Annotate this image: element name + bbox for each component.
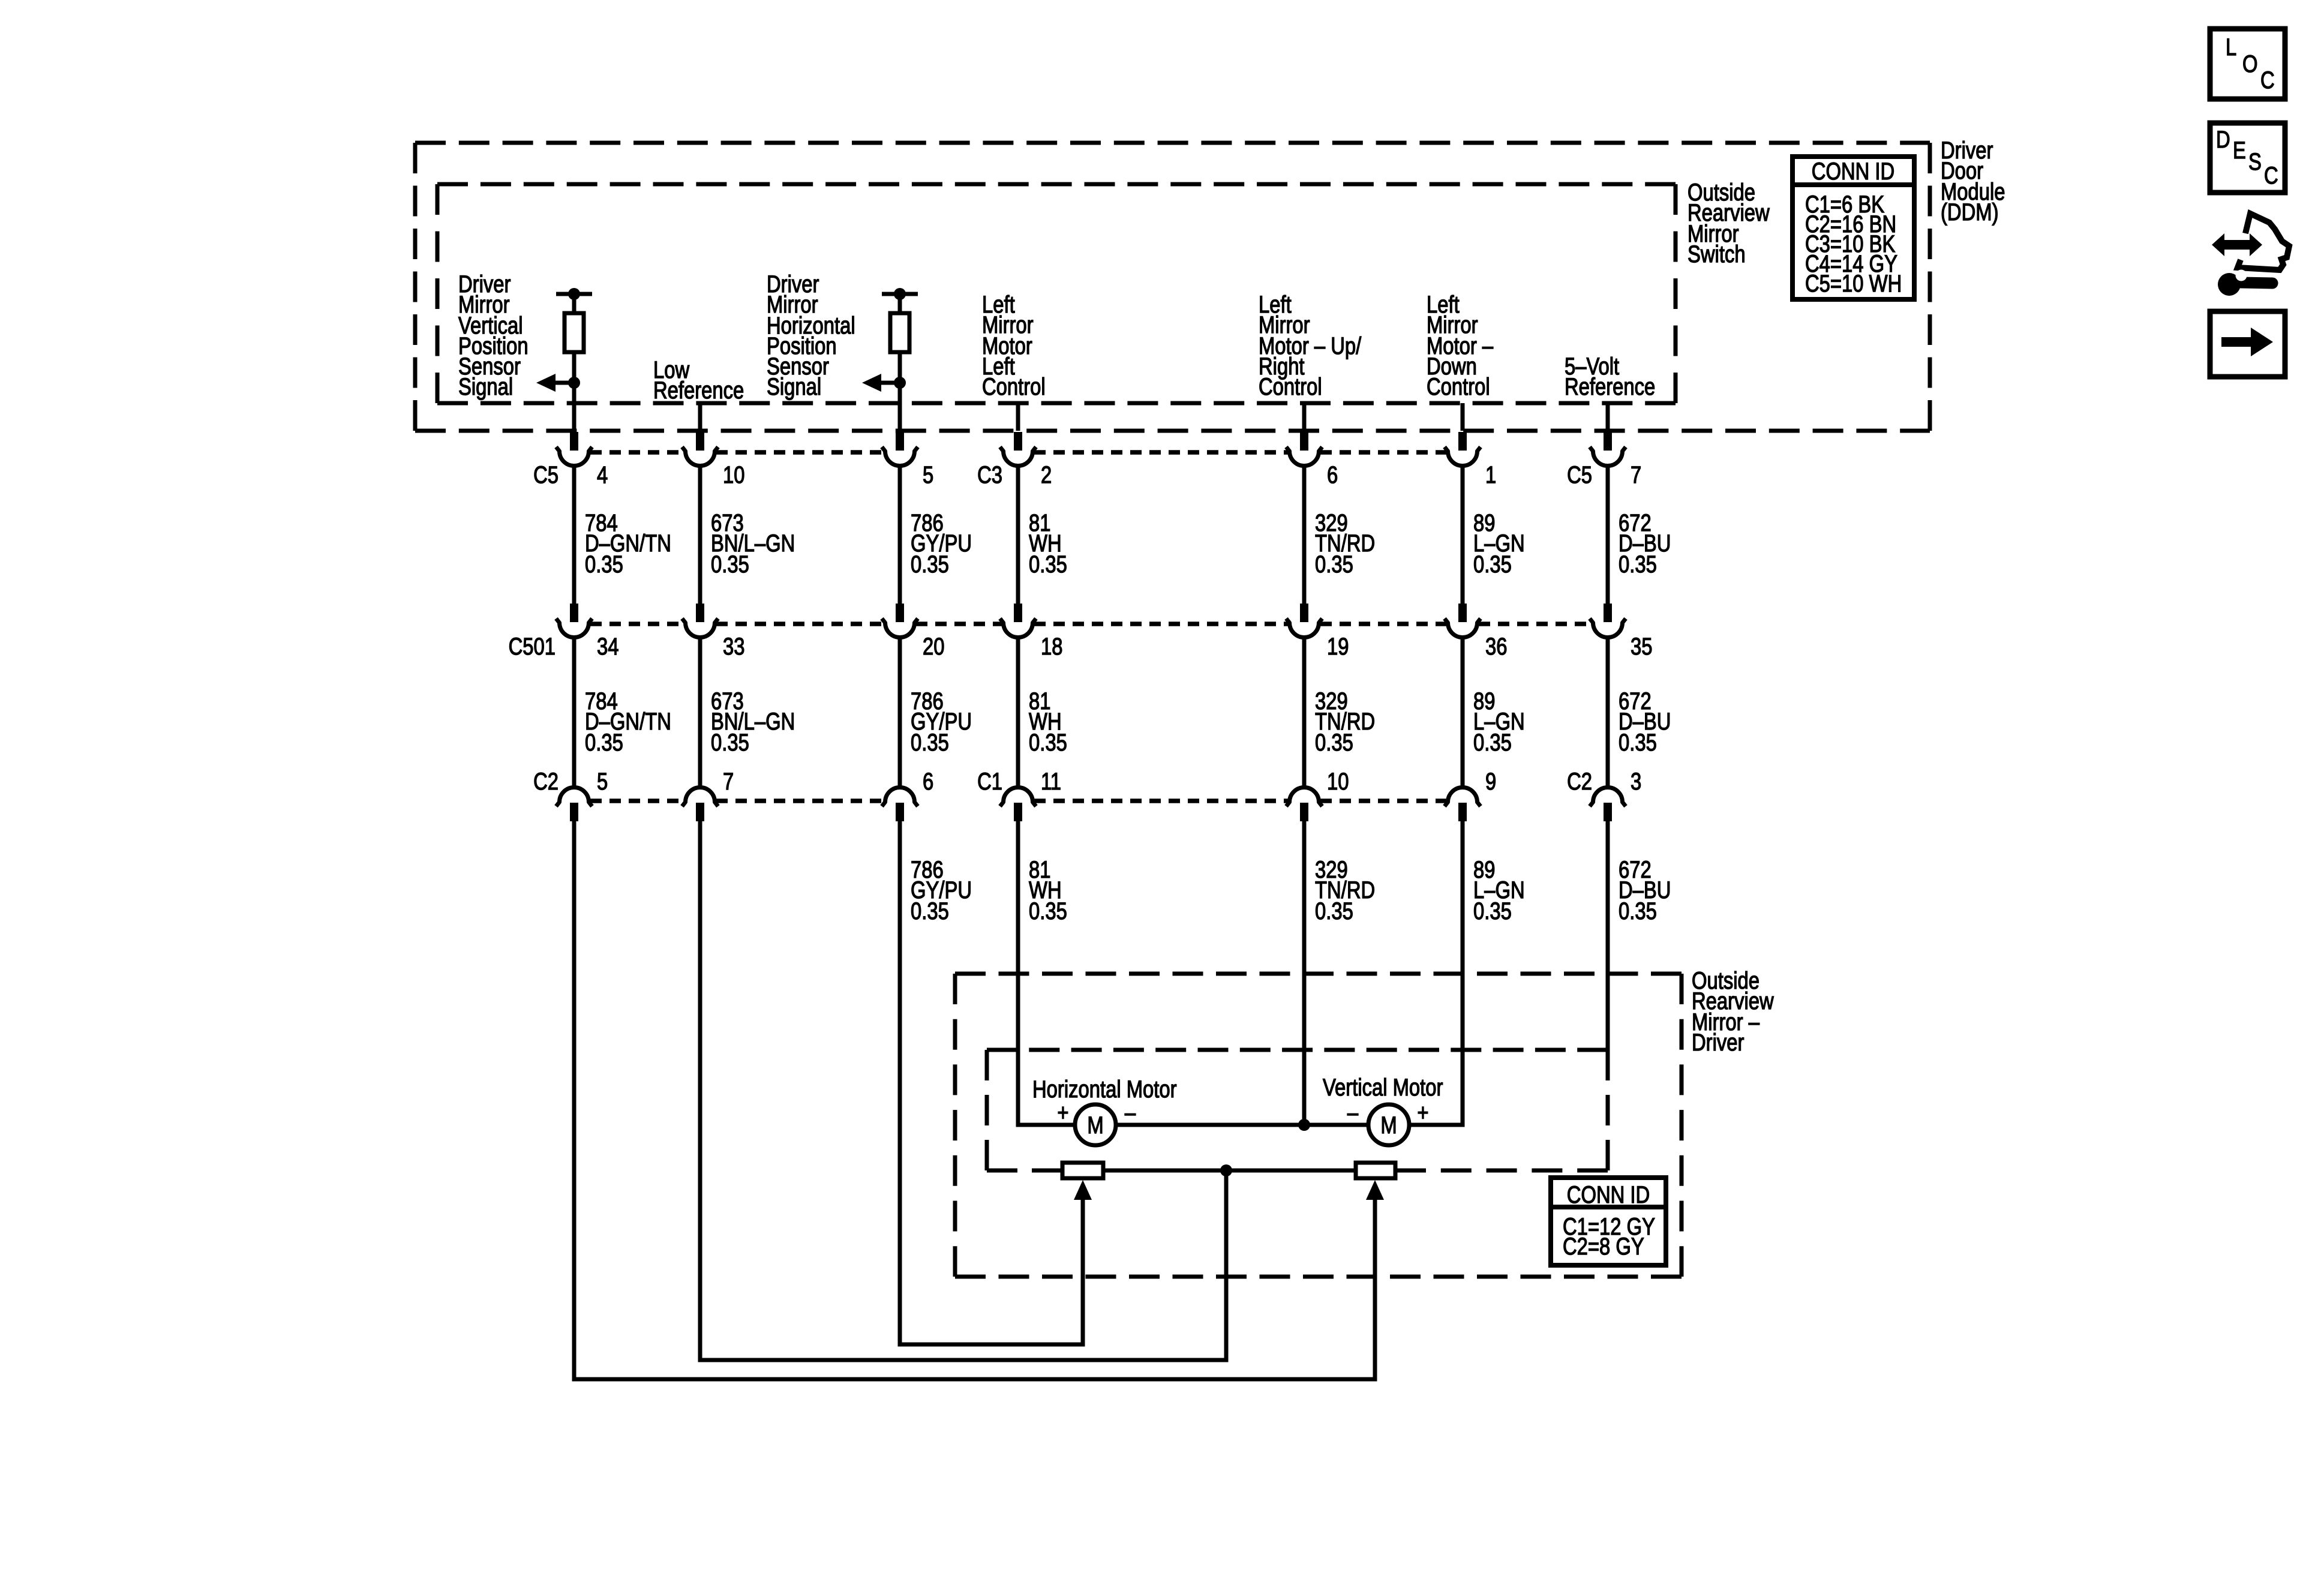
row3 pin stub col4 [1014, 803, 1022, 821]
Driver Door Module (DDM) outer dashed box [415, 143, 1930, 431]
wire label 81 WH [1029, 688, 1067, 756]
junction dot [894, 288, 906, 300]
horizontal motor M1 [1075, 1104, 1116, 1145]
row1 dotted connector line c1-c2 [590, 450, 684, 455]
driver mirror vertical position sensor: top bar [556, 292, 592, 296]
wire: Left Mirror Motor Up/Right Control pin [1302, 403, 1307, 431]
wire col5 down to motor junction [1302, 821, 1307, 1125]
svg-text:0.35: 0.35 [911, 729, 949, 756]
svg-text:CONN ID: CONN ID [1567, 1181, 1650, 1208]
svg-text:0.35: 0.35 [1029, 897, 1067, 924]
row1 pin stub col7 [1604, 432, 1612, 451]
wire col6 row2-row3 [1461, 638, 1465, 788]
svg-text:D: D [2216, 126, 2230, 153]
wiper arrow (horizontal position sensor signal) [862, 374, 900, 392]
svg-text:S: S [2248, 148, 2262, 175]
wire col2 row2-row3 [698, 638, 702, 788]
row3 connector cup col2 [682, 788, 718, 807]
wire col2 to low-reference junction [700, 821, 1226, 1360]
wiper arrow into vertical sensor [1366, 1180, 1384, 1200]
row3 connector cup col3 [882, 788, 918, 807]
row2 connector cup col6 [1445, 619, 1481, 638]
row2 pin stub col4 [1014, 604, 1022, 622]
wire: 5-Volt Reference pin [1606, 403, 1610, 431]
wire col3 row2-row3 [898, 638, 902, 788]
svg-text:Reference: Reference [1565, 373, 1655, 400]
svg-text:10: 10 [1327, 768, 1349, 795]
junction dot [568, 288, 580, 300]
svg-text:+: + [1057, 1099, 1068, 1126]
row2 dotted connector line [916, 622, 1002, 626]
svg-text:C2: C2 [533, 768, 559, 795]
svg-text:5: 5 [923, 461, 933, 488]
wire label 786 GY/PU [911, 509, 972, 578]
wire: Left Mirror Motor Down Control pin [1461, 403, 1465, 431]
row2 connector cup col2 [682, 619, 718, 638]
row3 connector cup col4 [1000, 788, 1036, 807]
svg-text:0.35: 0.35 [585, 729, 623, 756]
horizontal position sensor element [1062, 1163, 1103, 1178]
svg-text:6: 6 [923, 768, 933, 795]
svg-text:Control: Control [1259, 373, 1322, 400]
hyperlink arrow icon box [2210, 311, 2285, 377]
svg-text:35: 35 [1631, 633, 1652, 660]
wire col3 to horizontal sensor wiper [900, 821, 1083, 1344]
row3 dotted connector line c4-c5 [1034, 798, 1288, 803]
row2 pin stub col1 [570, 604, 578, 622]
row2 pin stub col5 [1300, 604, 1308, 622]
svg-text:Vertical Motor: Vertical Motor [1323, 1074, 1443, 1101]
row3 pin stub col7 [1604, 803, 1612, 821]
LOC icon box [2210, 29, 2285, 99]
wire label 89 L–GN [1473, 509, 1525, 578]
row1 connector cup col6 [1445, 447, 1481, 466]
svg-text:C5: C5 [533, 461, 559, 488]
label: Driver Mirror Horizontal Position Sensor Signal [767, 271, 855, 400]
svg-text:0.35: 0.35 [1315, 729, 1353, 756]
Outside Rearview Mirror Switch inner dashed box [437, 184, 1676, 403]
row2 pin stub col2 [696, 604, 704, 622]
row3 connector cup col5 [1286, 788, 1322, 807]
svg-text:19: 19 [1327, 633, 1349, 660]
label: Left Mirror Motor - Down Control [1427, 291, 1494, 400]
wire label 672 D–BU [1619, 509, 1671, 578]
wire col6 down to Vertical Motor + [1409, 821, 1463, 1125]
row1 pin stub col2 [696, 432, 704, 451]
row2 connector cup col1 [556, 619, 592, 638]
svg-text:6: 6 [1327, 461, 1338, 488]
wire label 673 BN/L–GN [711, 688, 795, 756]
svg-text:C5=10 WH: C5=10 WH [1805, 270, 1902, 297]
DESC icon box [2210, 123, 2285, 193]
row2 connector cup col5 [1286, 619, 1322, 638]
svg-text:0.35: 0.35 [911, 551, 949, 578]
svg-text:L: L [2226, 34, 2236, 61]
wire label 786 GY/PU [911, 688, 972, 756]
row1 pin stub col1 [570, 432, 578, 451]
svg-text:10: 10 [723, 461, 744, 488]
svg-text:+: + [1417, 1099, 1428, 1126]
svg-text:36: 36 [1485, 633, 1507, 660]
label: Driver Mirror Vertical Position Sensor Signal [458, 271, 529, 400]
wire label 672 D–BU [1619, 856, 1671, 924]
row2 pin stub col3 [896, 604, 904, 622]
row1 pin stub col3 [896, 432, 904, 451]
row2 dotted connector line [1479, 622, 1592, 626]
wire [572, 294, 577, 313]
vertical motor M2 [1368, 1104, 1409, 1145]
svg-text:4: 4 [597, 461, 608, 488]
wire col6 row1-row2 [1461, 466, 1465, 604]
svg-text:Signal: Signal [458, 373, 513, 400]
row2 dotted connector line [1320, 622, 1446, 626]
wire col7 down to mirror assembly (5V ref) [1606, 821, 1610, 1062]
svg-text:9: 9 [1485, 768, 1496, 795]
wire label 672 D–BU [1619, 688, 1671, 756]
svg-text:C501: C501 [509, 633, 556, 660]
svg-text:1: 1 [1485, 461, 1496, 488]
svg-text:Driver: Driver [1692, 1029, 1744, 1056]
wire col5 row2-row3 [1302, 638, 1307, 788]
junction dot motor row [1298, 1119, 1310, 1131]
wire [898, 294, 902, 313]
wire: Low Reference pin [698, 403, 702, 431]
svg-text:C3: C3 [977, 461, 1002, 488]
row3 pin stub col1 [570, 803, 578, 821]
junction dot (wiper tap) [894, 377, 906, 389]
row3 dotted connector line c1-c2 [590, 798, 684, 803]
wire between sensor elements [1103, 1169, 1356, 1173]
row3 pin stub col5 [1300, 803, 1308, 821]
row1 connector cup col4 [1000, 447, 1036, 466]
label: Driver Door Module (DDM) [1941, 137, 2005, 226]
svg-text:Signal: Signal [767, 373, 821, 400]
inner box top edge [987, 1048, 1608, 1052]
svg-text:M: M [1380, 1112, 1397, 1139]
svg-text:0.35: 0.35 [1029, 551, 1067, 578]
row2 connector cup col7 [1590, 619, 1626, 638]
svg-text:M: M [1087, 1112, 1103, 1139]
svg-text:7: 7 [723, 768, 734, 795]
row3 pin stub col6 [1458, 803, 1467, 821]
row2 dotted connector line [1034, 622, 1288, 626]
wire label 81 WH [1029, 509, 1067, 578]
row2 pin stub col7 [1604, 604, 1612, 622]
label: Outside Rearview Mirror Switch [1688, 179, 1770, 268]
wire between motors [1116, 1123, 1368, 1127]
wire col7 row1-row2 [1606, 466, 1610, 604]
svg-text:0.35: 0.35 [711, 551, 749, 578]
svg-text:C: C [2264, 162, 2278, 189]
svg-text:34: 34 [597, 633, 618, 660]
svg-text:0.35: 0.35 [585, 551, 623, 578]
row1 pin stub col6 [1458, 432, 1467, 451]
wire label 784 D–GN/TN [585, 509, 671, 578]
svg-text:C2: C2 [1567, 768, 1592, 795]
resistor (vertical position sensor element) [565, 313, 584, 352]
inner box left edge [985, 1050, 989, 1170]
wire label 673 BN/L–GN [711, 509, 795, 578]
row2 pin stub col6 [1458, 604, 1467, 622]
wire col4 row2-row3 [1016, 638, 1020, 788]
junction dot (low reference) [1220, 1164, 1232, 1176]
label: Low Reference [653, 356, 744, 404]
wire col4 row1-row2 [1016, 466, 1020, 604]
wire label 89 L–GN [1473, 688, 1525, 756]
svg-text:0.35: 0.35 [1619, 551, 1657, 578]
svg-text:0.35: 0.35 [1619, 897, 1657, 924]
wire col1 to vertical sensor wiper [574, 821, 1375, 1379]
wire col3 row1-row2 [898, 466, 902, 604]
svg-text:E: E [2233, 137, 2246, 164]
row3 pin stub col3 [896, 803, 904, 821]
label: Left Mirror Motor Left Control [982, 291, 1046, 400]
wire label 329 TN/RD [1315, 509, 1375, 578]
svg-text:C5: C5 [1567, 461, 1592, 488]
row3 connector cup col6 [1445, 788, 1481, 807]
wire label 329 TN/RD [1315, 688, 1375, 756]
svg-text:3: 3 [1631, 768, 1641, 795]
svg-text:C1: C1 [977, 768, 1002, 795]
svg-text:0.35: 0.35 [1619, 729, 1657, 756]
wire [898, 352, 902, 431]
driver mirror horizontal position sensor: top bar [882, 292, 918, 296]
resistor (horizontal position sensor element) [890, 313, 909, 352]
row1 connector cup col2 [682, 447, 718, 466]
wire col1 row2-row3 [572, 638, 577, 788]
row3 connector cup col1 [556, 788, 592, 807]
wire label 786 GY/PU [911, 856, 972, 924]
inner box bottom edge (left part) [987, 1169, 1062, 1173]
svg-text:0.35: 0.35 [1029, 729, 1067, 756]
svg-text:Control: Control [982, 373, 1046, 400]
label: Left Mirror Motor - Up/Right Control [1259, 291, 1362, 400]
row1 connector cup col5 [1286, 447, 1322, 466]
svg-text:Control: Control [1427, 373, 1490, 400]
Outside Rearview Mirror - Driver dashed box [955, 974, 1682, 1277]
wire: Left Mirror Motor Left Control pin [1016, 403, 1020, 431]
wire col1 row1-row2 [572, 466, 577, 604]
svg-text:18: 18 [1041, 633, 1062, 660]
inner box bottom edge (right part) [1395, 1169, 1608, 1173]
svg-text:0.35: 0.35 [1473, 897, 1512, 924]
CONN ID table (DDM connectors) [1792, 157, 1914, 299]
wire label 784 D–GN/TN [585, 688, 671, 756]
svg-text:11: 11 [1041, 768, 1061, 795]
row1 connector cup col3 [882, 447, 918, 466]
svg-text:0.35: 0.35 [911, 897, 949, 924]
svg-text:0.35: 0.35 [1315, 551, 1353, 578]
wire label 81 WH [1029, 856, 1067, 924]
svg-text:0.35: 0.35 [1473, 551, 1512, 578]
row2 dotted connector line [716, 622, 884, 626]
svg-text:33: 33 [723, 633, 744, 660]
row1 dotted connector line c5-c6 [1320, 450, 1446, 455]
inner box right edge [1606, 1050, 1610, 1170]
wiper arrow into horizontal sensor [1074, 1180, 1092, 1200]
row1 dotted connector line c4-c5 [1034, 450, 1288, 455]
row3 pin stub col2 [696, 803, 704, 821]
wire [572, 352, 577, 431]
junction dot (wiper tap) [568, 377, 580, 389]
svg-text:Reference: Reference [653, 377, 744, 404]
svg-text:2: 2 [1041, 461, 1052, 488]
svg-text:Switch: Switch [1688, 241, 1746, 268]
svg-text:CONN ID: CONN ID [1812, 158, 1894, 185]
wiper arrow (vertical position sensor signal) [536, 374, 574, 392]
diagnostic icon: double arrow, mirror outline, wrench [2212, 214, 2289, 296]
svg-text:C: C [2260, 67, 2275, 94]
svg-text:Horizontal Motor: Horizontal Motor [1032, 1076, 1177, 1103]
row1 connector cup col7 [1590, 447, 1626, 466]
svg-text:(DDM): (DDM) [1941, 199, 1999, 226]
svg-text:7: 7 [1631, 461, 1641, 488]
svg-text:5: 5 [597, 768, 608, 795]
CONN ID table (mirror connectors) [1551, 1178, 1666, 1265]
row2 dotted connector line [590, 622, 684, 626]
row2 connector cup col4 [1000, 619, 1036, 638]
wire col4 down to Horizontal Motor + [1018, 821, 1075, 1125]
svg-text:–: – [1125, 1099, 1136, 1126]
wire label 89 L–GN [1473, 856, 1525, 924]
wire col2 row1-row2 [698, 466, 702, 604]
svg-text:0.35: 0.35 [1315, 897, 1353, 924]
row1 dotted connector line c2-c3 [716, 450, 884, 455]
vertical position sensor element [1356, 1163, 1395, 1178]
row3 connector cup col7 [1590, 788, 1626, 807]
row2 connector cup col3 [882, 619, 918, 638]
row3 dotted connector line c2-c3 [716, 798, 884, 803]
row1 pin stub col4 [1014, 432, 1022, 451]
svg-text:O: O [2242, 50, 2258, 77]
label: 5-Volt Reference [1565, 353, 1655, 400]
wire col7 row2-row3 [1606, 638, 1610, 788]
svg-text:20: 20 [923, 633, 944, 660]
row3 dotted connector line c5-c6 [1320, 798, 1446, 803]
wire label 329 TN/RD [1315, 856, 1375, 924]
row1 connector cup col1 [556, 447, 592, 466]
label: Outside Rearview Mirror - Driver [1692, 967, 1774, 1056]
svg-text:–: – [1347, 1099, 1359, 1126]
svg-text:C2=8 GY: C2=8 GY [1563, 1233, 1644, 1260]
svg-text:0.35: 0.35 [711, 729, 749, 756]
row1 pin stub col5 [1300, 432, 1308, 451]
svg-text:0.35: 0.35 [1473, 729, 1512, 756]
wire col5 row1-row2 [1302, 466, 1307, 604]
